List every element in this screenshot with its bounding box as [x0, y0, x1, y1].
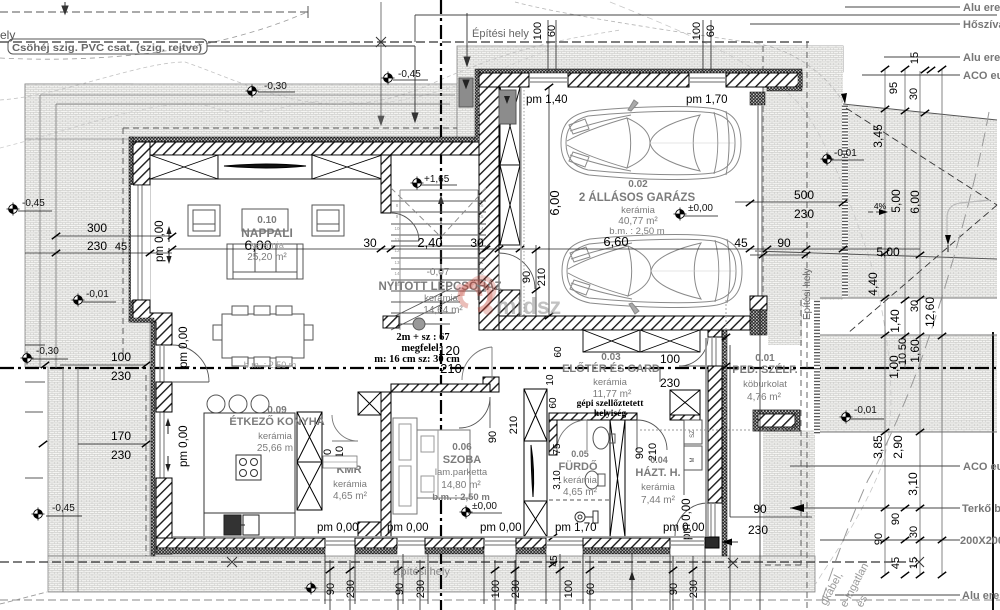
- sink counter: [204, 513, 295, 538]
- svg-text:Alu eres: Alu eres: [962, 590, 1000, 602]
- garage door dim 90: [750, 254, 808, 256]
- driveway slope top line: [843, 104, 997, 120]
- svg-text:0.09: 0.09: [267, 405, 287, 416]
- svg-text:2 ÁLLÁSOS GARÁZS: 2 ÁLLÁSOS GARÁZS: [579, 191, 696, 204]
- bottom step block: [383, 316, 399, 328]
- rear door arc: [675, 503, 708, 536]
- svg-text:60: 60: [548, 397, 559, 409]
- bath door arc: [557, 420, 587, 450]
- east wall upper piece: [708, 330, 722, 337]
- ticks left wall dims: [41, 362, 49, 368]
- nappali north wall: [133, 142, 500, 155]
- svg-text:45: 45: [115, 241, 127, 253]
- svg-text:45: 45: [734, 236, 748, 250]
- garage south wall: [499, 316, 750, 330]
- svg-text:4%: 4%: [874, 201, 887, 211]
- svg-text:b.m. : 2,50 m: b.m. : 2,50 m: [609, 226, 665, 237]
- sideboard with lens: [218, 155, 312, 179]
- extension verticals right area: [885, 69, 942, 575]
- bath dashed screen: [549, 499, 610, 501]
- svg-text:230: 230: [510, 580, 522, 598]
- construction-area dashed line (Építési hely) top: [0, 41, 809, 43]
- garage inner dotted line: [523, 90, 525, 316]
- svg-text:kerámia: kerámia: [621, 205, 656, 216]
- svg-text:90: 90: [753, 502, 767, 516]
- kitchen south window: [325, 541, 355, 545]
- PVC note box: [8, 39, 207, 54]
- bottom extension verticals: [325, 548, 705, 610]
- svg-text:ÉTKEZŐ KONYHA: ÉTKEZŐ KONYHA: [229, 415, 324, 428]
- stair rule note (serif bold): [374, 332, 644, 419]
- svg-text:-0,30: -0,30: [264, 81, 287, 92]
- X mark on bottom dashed: [227, 557, 237, 567]
- kitchen island: [204, 413, 295, 513]
- entry door dim ticks: [722, 334, 730, 340]
- level values: [22, 69, 877, 512]
- X mark on dashed top line: [376, 37, 386, 47]
- svg-text:ACO eu: ACO eu: [963, 70, 1000, 82]
- svg-text:200X200: 200X200: [960, 535, 1000, 547]
- west wall lower piece + jog: [133, 300, 172, 345]
- svg-text:75: 75: [552, 443, 563, 455]
- svg-text:230: 230: [345, 580, 357, 598]
- coffee table: [242, 209, 288, 231]
- svg-text:50: 50: [897, 338, 909, 350]
- garage SE corner block: [750, 296, 767, 310]
- WC: [585, 471, 605, 489]
- heat pump unit gray box 1: [459, 78, 473, 107]
- porch dotted roof edge: [640, 300, 800, 430]
- driveway 5,00 slope line: [755, 251, 997, 259]
- west wall door piece: [160, 345, 164, 382]
- svg-text:4,65 m²: 4,65 m²: [333, 491, 368, 502]
- top paving band above garage + notch: [457, 46, 843, 141]
- szoba west wall hatch part: [381, 392, 391, 538]
- svg-text:30: 30: [470, 236, 484, 250]
- svg-text:230: 230: [111, 448, 131, 462]
- svg-text:30: 30: [909, 300, 921, 312]
- szoba/fürdő wall: [524, 389, 547, 441]
- top paving band above nappali: [25, 84, 457, 139]
- right callout labels top: [960, 2, 1000, 602]
- szoba door arc: [459, 397, 490, 428]
- svg-text:30: 30: [908, 526, 920, 538]
- nappali-stair door arc: [391, 213, 419, 241]
- garage door: [758, 105, 762, 296]
- szoba window 2: [484, 541, 516, 545]
- svg-text:Hőszíva: Hőszíva: [963, 19, 1000, 31]
- svg-text:10: 10: [394, 226, 400, 231]
- garage vertical dim line: [548, 87, 550, 316]
- svg-text:45: 45: [549, 555, 560, 567]
- svg-text:230: 230: [87, 239, 107, 253]
- garage north windows: [529, 78, 726, 82]
- main horizontal dim line: [25, 236, 172, 253]
- inner dashed boundary left band: [123, 128, 146, 556]
- svg-text:210: 210: [536, 268, 548, 286]
- svg-text:kerámia: kerámia: [563, 475, 598, 486]
- SZ box: [684, 420, 702, 444]
- west window arrows: [165, 226, 171, 472]
- svg-text:90: 90: [487, 431, 499, 443]
- svg-text:kerámia: kerámia: [424, 293, 459, 304]
- svg-text:-0,07: -0,07: [427, 267, 450, 278]
- svg-text:3,85: 3,85: [871, 435, 885, 459]
- svg-text:3,10: 3,10: [906, 472, 920, 496]
- svg-text:Építési hely: Építési hely: [472, 27, 529, 40]
- svg-text:90: 90: [634, 447, 646, 459]
- svg-text:Terkő b: Terkő b: [962, 503, 1000, 515]
- svg-text:pm 1,70: pm 1,70: [686, 94, 728, 106]
- svg-text:Építési hely: Építési hely: [800, 268, 813, 320]
- svg-text:5,00: 5,00: [889, 189, 903, 213]
- stair break diagonal: [391, 288, 460, 330]
- svg-text:helyiség: helyiség: [594, 409, 626, 419]
- main vertical axis (dash-dot): [440, 0, 442, 610]
- armchair left: [188, 205, 220, 236]
- garage north wall insulation: [479, 69, 802, 73]
- svg-text:1,00: 1,00: [887, 355, 901, 379]
- svg-text:100: 100: [490, 580, 502, 598]
- svg-text:köburkolat: köburkolat: [743, 379, 787, 390]
- svg-text:HÁZT. H.: HÁZT. H.: [635, 466, 680, 479]
- room labels: [229, 179, 797, 506]
- svg-text:-0,01: -0,01: [854, 405, 877, 416]
- garage door dim 500/230: [735, 201, 845, 203]
- neighbour boundary long-dash: [822, 112, 989, 600]
- washbasin: [593, 427, 609, 449]
- south wall segment 3: [425, 538, 484, 548]
- svg-text:0.03: 0.03: [601, 352, 621, 363]
- házt window: [670, 541, 705, 545]
- garage west wall lintel boxes: [500, 87, 520, 165]
- svg-text:6,00: 6,00: [908, 190, 922, 214]
- svg-text:ELŐTÉR ÉS GARD: ELŐTÉR ÉS GARD: [562, 362, 660, 375]
- svg-text:pm 0,00: pm 0,00: [154, 220, 166, 262]
- svg-text:pm 0,00: pm 0,00: [387, 522, 429, 534]
- svg-text:0.01: 0.01: [755, 353, 775, 364]
- svg-text:kerámia: kerámia: [333, 479, 368, 490]
- dining table: [213, 306, 313, 366]
- M box: [684, 446, 702, 470]
- west jog insulation: [129, 318, 154, 322]
- stair lower flight: [391, 302, 460, 324]
- hall wardrobe X-box: [670, 390, 700, 415]
- svg-text:60: 60: [546, 25, 558, 37]
- svg-text:210: 210: [508, 416, 520, 434]
- svg-text:2,90: 2,90: [891, 435, 905, 459]
- stair tread numbers: [394, 203, 484, 287]
- svg-text:4,76 m²: 4,76 m²: [747, 392, 782, 403]
- svg-text:pm 0,00: pm 0,00: [681, 498, 693, 540]
- szoba north wall: [391, 384, 490, 392]
- svg-text:-0,01: -0,01: [86, 289, 109, 300]
- arrow down at 65: [62, 2, 68, 14]
- inner floor gray lines: [173, 338, 706, 537]
- svg-text:100: 100: [532, 22, 544, 40]
- rear door arrow: [722, 541, 738, 543]
- svg-text:kerámia: kerámia: [250, 240, 285, 251]
- 4% slope arrow: [868, 211, 886, 213]
- svg-text:90: 90: [890, 513, 902, 525]
- svg-text:30: 30: [908, 88, 920, 100]
- svg-text:2m + sz : 67: 2m + sz : 67: [396, 332, 449, 343]
- svg-text:170: 170: [111, 429, 131, 443]
- top window extension lines: [548, 20, 711, 73]
- svg-text:14,64 m²: 14,64 m²: [423, 305, 463, 316]
- lintel X box 1: [150, 155, 218, 179]
- west wall bottom piece: [156, 478, 172, 554]
- ticks on main horizontal line: [168, 246, 176, 252]
- car 1: [561, 100, 741, 179]
- south wall segment 5: [583, 538, 670, 548]
- KMR door lintel X-box: [358, 392, 381, 415]
- armchair right: [312, 205, 344, 236]
- lintel X box 2: [312, 155, 382, 179]
- cooktop: [236, 455, 261, 480]
- svg-text:pm 0,00: pm 0,00: [317, 522, 359, 534]
- svg-text:15: 15: [908, 557, 920, 569]
- top site dashed line: [0, 11, 308, 13]
- svg-text:b.m. : 2,50 m: b.m. : 2,50 m: [432, 492, 490, 503]
- right edge heavy line: [992, 332, 994, 610]
- west wall upper insulation: [129, 137, 133, 322]
- garage NE wing wall insulation wrap: [798, 73, 802, 87]
- svg-text:gépi szellőztetett: gépi szellőztetett: [577, 399, 645, 409]
- házt door arc: [637, 420, 667, 450]
- ladder hatch strip (fence) right of walkway: [842, 104, 848, 297]
- svg-text:Építési hely: Építési hely: [393, 565, 450, 578]
- car turn template gray: [947, 200, 990, 240]
- svg-text:100: 100: [111, 350, 131, 364]
- driveway dashed diagonals (turning area): [846, 108, 997, 333]
- svg-text:kerámia: kerámia: [258, 431, 293, 442]
- stair side rails: [400, 190, 478, 330]
- stair treads upper: [391, 201, 486, 291]
- svg-text:-0,01: -0,01: [834, 148, 857, 159]
- east wall mid piece: [708, 366, 722, 503]
- garage door vertical dim: [535, 245, 537, 316]
- rear door opening: [711, 503, 715, 537]
- right walkway strip: [763, 46, 843, 300]
- end tick of top site line: [307, 6, 309, 18]
- hall door extension: [659, 368, 661, 382]
- svg-text:230: 230: [688, 580, 700, 598]
- svg-text:230: 230: [748, 523, 768, 537]
- south wall segment 1 (kitchen): [156, 538, 325, 548]
- svg-text:ACO eu: ACO eu: [963, 461, 1000, 473]
- garage floor inner line: [520, 88, 522, 316]
- column dot: [413, 318, 425, 330]
- left band inner thin lines: [40, 95, 78, 592]
- svg-text:0.06: 0.06: [452, 442, 472, 453]
- svg-text:-0,45: -0,45: [52, 503, 75, 514]
- svg-text:95: 95: [888, 82, 900, 94]
- svg-text:11: 11: [479, 260, 484, 265]
- garage door jamb block: [750, 92, 765, 105]
- svg-text:230: 230: [415, 580, 427, 598]
- KMR shelf: [323, 456, 357, 468]
- svg-text:ely: ely: [0, 28, 15, 42]
- svg-text:13: 13: [394, 260, 400, 265]
- svg-text:Alu eres: Alu eres: [963, 2, 1000, 14]
- svg-text:kerámia: kerámia: [593, 377, 628, 388]
- svg-text:0.10: 0.10: [257, 215, 277, 226]
- walking line dashed with arrow: [440, 195, 442, 300]
- svg-text:pm 0,00: pm 0,00: [178, 326, 190, 368]
- svg-text:pm 1,40: pm 1,40: [526, 94, 568, 106]
- szoba wardrobe strip: [393, 418, 417, 514]
- svg-text:45: 45: [890, 557, 902, 569]
- svg-text:pm 0,00: pm 0,00: [178, 425, 190, 467]
- svg-text:0.02: 0.02: [628, 179, 648, 190]
- diagonal gray texts bottom right: [818, 561, 871, 609]
- driveway band edges: [820, 298, 997, 432]
- right driveway area: [843, 104, 997, 298]
- svg-text:100: 100: [660, 352, 680, 366]
- left lower site diagonal: [0, 592, 47, 604]
- pm labels: [154, 94, 728, 540]
- svg-text:Alu eres: Alu eres: [963, 52, 1000, 64]
- svg-text:90: 90: [325, 583, 337, 595]
- ticks right bottom: [881, 505, 889, 511]
- kmr door arc: [332, 415, 358, 441]
- doormat at porch: [753, 410, 800, 431]
- rotated dimension numbers: [322, 22, 937, 598]
- svg-text:60: 60: [585, 583, 597, 595]
- svg-text:5,00: 5,00: [876, 245, 900, 259]
- ticks garage door: [746, 200, 754, 206]
- svg-text:300: 300: [87, 221, 107, 235]
- svg-text:-0,45: -0,45: [398, 69, 421, 80]
- fürdő window: [546, 541, 583, 545]
- east wall insulation strip: [722, 330, 727, 556]
- nappali north wall insulation: [130, 137, 500, 142]
- svg-text:230: 230: [111, 369, 131, 383]
- west kitchen window: [160, 412, 164, 478]
- svg-text:±0,00: ±0,00: [688, 203, 713, 214]
- entry door opening: [712, 337, 716, 366]
- svg-text:10: 10: [545, 374, 556, 386]
- south wall segment 2: [355, 538, 397, 548]
- svg-text:0.04: 0.04: [650, 455, 668, 465]
- svg-text:4,65 m²: 4,65 m²: [563, 487, 598, 498]
- svg-text:230: 230: [794, 207, 814, 221]
- bottom paving band: [48, 556, 815, 592]
- garage north wall: [479, 73, 529, 87]
- svg-text:SZOBA: SZOBA: [443, 454, 482, 466]
- left paving band: [25, 84, 150, 556]
- svg-text:megfelel: megfelel: [401, 343, 438, 354]
- svg-text:30: 30: [363, 236, 377, 250]
- svg-text:25,66 m: 25,66 m: [257, 443, 293, 454]
- svg-text:15: 15: [478, 214, 484, 219]
- top leader lines to right labels: [750, 7, 960, 75]
- svg-text:500: 500: [794, 188, 814, 202]
- garage-hall door lintels: [583, 330, 640, 352]
- bath west stub: [549, 420, 557, 455]
- garage west wall outer (full height): [479, 72, 499, 330]
- svg-text:60: 60: [553, 346, 564, 358]
- ticks bottom chain: [326, 567, 334, 573]
- svg-text:1,60: 1,60: [908, 339, 922, 363]
- left extension horizontals: [25, 345, 45, 478]
- garage SW corner piece: [499, 290, 520, 316]
- svg-text:14,80 m²: 14,80 m²: [441, 480, 481, 491]
- KMR south wall piece: [358, 522, 381, 538]
- svg-text:Csöhéj szig. PVC csat. (szig.: Csöhéj szig. PVC csat. (szig. rejtve): [12, 42, 202, 54]
- shower tap: [575, 511, 598, 523]
- svg-text:90: 90: [521, 271, 533, 283]
- rear door dim 90/230: [730, 345, 812, 517]
- dimension numbers horizontal: [87, 188, 900, 537]
- bottom site dashed line: [0, 599, 1000, 601]
- svg-text:b.m. : 2,50 m: b.m. : 2,50 m: [244, 360, 297, 370]
- svg-text:1,40: 1,40: [888, 309, 902, 333]
- svg-text:2,40: 2,40: [417, 235, 442, 250]
- svg-text:6,00: 6,00: [547, 190, 562, 215]
- west door arc: [172, 345, 209, 382]
- bottom arrow near 632: [631, 573, 633, 589]
- svg-text:0.05: 0.05: [571, 449, 589, 459]
- svg-text:kerámia: kerámia: [641, 482, 676, 493]
- right walkway dashed edges: [763, 42, 807, 610]
- SE corner block: [705, 537, 719, 548]
- main horizontal axis (dash-dot): [0, 367, 997, 369]
- leader line to wall top: [464, 13, 470, 66]
- svg-text:90: 90: [777, 236, 791, 250]
- car 2: [562, 235, 742, 314]
- leader vertical at 381: [378, 2, 384, 125]
- svg-text:FÜRDŐ: FÜRDŐ: [558, 460, 598, 473]
- dashed up-line V: [391, 188, 486, 237]
- svg-text:12,60: 12,60: [923, 297, 937, 327]
- garage interior dim ticks: [545, 84, 553, 90]
- szoba window 1: [397, 541, 425, 545]
- garage-stair door arc: [499, 253, 535, 289]
- svg-text:15: 15: [909, 52, 921, 64]
- svg-text:90: 90: [873, 533, 885, 545]
- ticks top right cluster: [881, 66, 889, 72]
- entry door arc: [679, 337, 708, 366]
- left west-wall dim lines: [60, 365, 146, 444]
- nappali east wall (stair west): [381, 155, 391, 213]
- south wall segment 4: [516, 538, 546, 548]
- arrow on Terkő leader: [790, 504, 804, 512]
- bar stools: [207, 395, 225, 413]
- west wall middle piece: [156, 382, 172, 412]
- bed: [417, 430, 470, 498]
- level marker bottom-left: [32, 508, 45, 521]
- svg-text:M: M: [690, 458, 696, 463]
- szoba NE corner: [483, 377, 499, 392]
- hall-stair door arc: [462, 347, 492, 380]
- sink unit: [224, 515, 259, 535]
- svg-text:90: 90: [668, 583, 680, 595]
- svg-text:-0,30: -0,30: [36, 346, 59, 357]
- west wall window W: [131, 185, 150, 300]
- counter line: [683, 420, 685, 495]
- svg-text:NAPPALI: NAPPALI: [241, 226, 293, 240]
- leader PVC line: [207, 46, 418, 122]
- west wall upper: [133, 142, 150, 185]
- svg-text:3,45: 3,45: [871, 124, 885, 148]
- svg-text:PED. SZÉLF.: PED. SZÉLF.: [732, 363, 797, 376]
- svg-text:lam.parketta: lam.parketta: [435, 467, 488, 478]
- svg-text:-0,45: -0,45: [22, 198, 45, 209]
- fürdő/házt wall X-box: [610, 420, 625, 537]
- svg-text:4,40: 4,40: [866, 272, 880, 296]
